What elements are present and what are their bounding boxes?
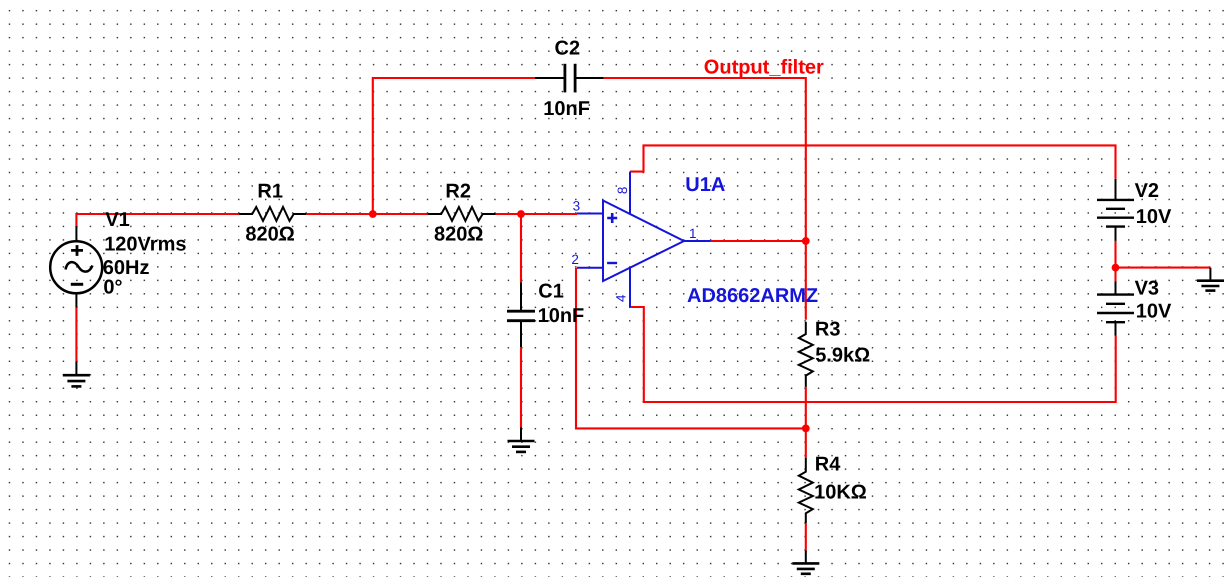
svg-text:Output_filter: Output_filter [704,57,824,79]
svg-text:10nF: 10nF [543,98,590,120]
svg-text:8: 8 [615,187,630,195]
svg-text:10V: 10V [1136,300,1172,322]
svg-text:U1A: U1A [685,174,725,196]
svg-text:C1: C1 [538,280,564,302]
svg-text:820Ω: 820Ω [434,223,483,245]
svg-text:2: 2 [571,252,579,267]
svg-text:AD8662ARMZ: AD8662ARMZ [687,285,818,307]
svg-text:10V: 10V [1136,206,1172,228]
svg-text:1: 1 [689,226,697,241]
svg-text:C2: C2 [555,38,581,60]
svg-text:0°: 0° [103,276,122,298]
svg-text:R1: R1 [257,180,283,202]
svg-text:R3: R3 [815,319,841,341]
svg-text:820Ω: 820Ω [245,223,294,245]
svg-text:R4: R4 [815,454,841,476]
svg-text:120Vrms: 120Vrms [104,233,186,255]
svg-text:3: 3 [573,199,581,214]
svg-text:4: 4 [614,294,629,302]
svg-text:10KΩ: 10KΩ [814,481,867,503]
svg-text:R2: R2 [445,180,471,202]
svg-text:10nF: 10nF [538,305,585,327]
svg-text:V3: V3 [1135,278,1159,300]
svg-text:V2: V2 [1135,180,1159,202]
svg-text:V1: V1 [105,209,129,231]
svg-text:5.9kΩ: 5.9kΩ [815,345,870,367]
